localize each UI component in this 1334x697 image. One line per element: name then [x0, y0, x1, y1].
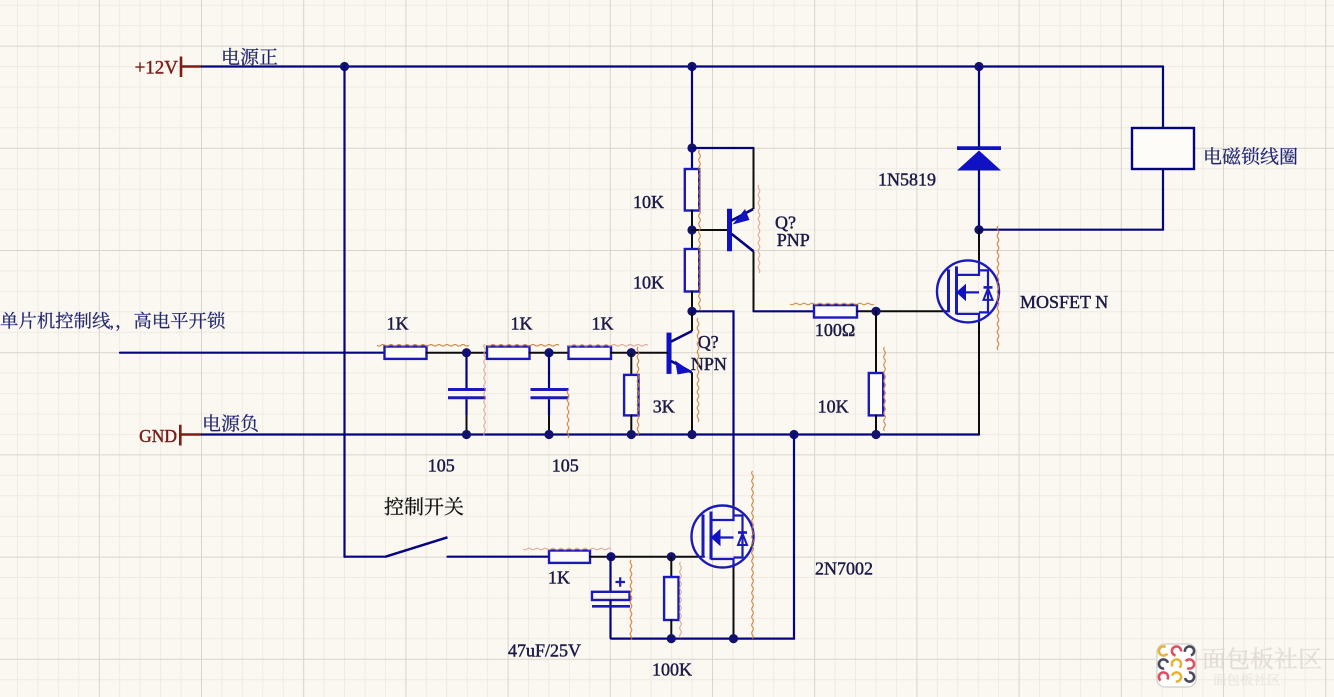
wire switch to R1K [448, 556, 550, 558]
svg-text:3K: 3K [653, 397, 675, 417]
junction R100K node [667, 552, 676, 561]
net label 电源正 [223, 48, 277, 65]
wire to MOSFET N drain [978, 230, 980, 260]
wire anode node to relay bottom [979, 169, 1163, 230]
pin wire 10K junction [691, 211, 693, 250]
junction PNP emitter node [687, 143, 696, 152]
svg-text:GND: GND [139, 426, 177, 446]
wire to switch [345, 556, 386, 558]
wire 12V to diode cathode [978, 67, 980, 149]
svg-text:Q?: Q? [698, 332, 719, 352]
junction top rail B [687, 62, 696, 71]
svg-text:10K: 10K [633, 273, 664, 293]
svg-text:NPN: NPN [691, 354, 727, 374]
capacitor 47uF/25V polarized [592, 557, 630, 639]
wire NPN collector node to 2N7002 drain [692, 311, 734, 505]
wire bottom rail [611, 435, 794, 639]
wire PNP base [692, 229, 727, 231]
wire PNP collector to R100 [754, 310, 815, 312]
junction top rail C [974, 62, 983, 71]
transistor Q? PNP [730, 148, 754, 311]
wire gate node to R10K [875, 311, 877, 373]
svg-text:2N7002: 2N7002 [815, 559, 873, 579]
pin wire 10K bottom [691, 292, 693, 312]
capacitor 105 second [531, 353, 569, 435]
watermark logo [1157, 644, 1196, 687]
net label 电源负 [204, 414, 257, 432]
svg-text:1K: 1K [511, 314, 533, 334]
svg-text:10K: 10K [818, 397, 849, 417]
wire R1K-1 to R1K-2 [427, 352, 488, 354]
resistor 1K third [569, 347, 612, 359]
wire +12V top rail [202, 65, 1163, 67]
wire R1K-3 to NPN base [611, 352, 667, 354]
svg-text:1K: 1K [592, 314, 614, 334]
junction gate node [871, 307, 880, 316]
svg-text:47uF/25V: 47uF/25V [508, 641, 581, 661]
svg-text:100Ω: 100Ω [815, 320, 855, 340]
watermark text 面包板社区 [1203, 647, 1321, 669]
resistor 100Ω [814, 305, 857, 317]
resistor 100K [664, 577, 678, 620]
wire GND rail [202, 433, 979, 435]
junction GND 5 [789, 430, 798, 439]
switch 控制开关 [386, 537, 448, 556]
junction NPN base node [627, 348, 636, 357]
net label 单片机控制线,，高电平开锁 [1, 312, 225, 331]
svg-text:1N5819: 1N5819 [878, 170, 936, 190]
wire 12V to R 10K top [691, 67, 693, 170]
power port +12V [181, 57, 202, 78]
svg-text:1K: 1K [548, 567, 570, 587]
junction bottom rail 1 [667, 634, 676, 643]
junction cap node [606, 552, 615, 561]
pin wire base to R3K [630, 353, 632, 375]
junction RC node 2 [544, 348, 553, 357]
junction bottom rail 2 [729, 634, 738, 643]
inductor/coil 电磁锁线圈 (relay box) [1132, 128, 1194, 169]
capacitor 105 first [448, 353, 486, 435]
junction RC node 1 [462, 348, 471, 357]
MOSFET 2N7002 [692, 505, 754, 568]
DRC marker zigzags [377, 345, 469, 347]
wire left vertical [343, 67, 345, 557]
pin wire 2N7002 drain [733, 505, 735, 520]
junction GND 3 [627, 430, 636, 439]
label 电磁锁线圈 [1205, 147, 1297, 165]
wire R100 to MOSFET gate [857, 310, 947, 312]
pin wire R100K to bottom rail [670, 620, 672, 639]
resistor 10K upper [685, 169, 699, 211]
junction diode anode node [974, 225, 983, 234]
transistor Q? NPN [669, 311, 692, 434]
wire diode anode down [978, 171, 980, 230]
power port GND [180, 425, 202, 446]
junction GND 1 [462, 430, 471, 439]
label 控制开关 [385, 497, 464, 515]
diode 1N5819 [957, 146, 1001, 170]
junction top rail A [340, 62, 349, 71]
svg-text:100K: 100K [652, 660, 692, 680]
svg-text:MOSFET N: MOSFET N [1020, 292, 1108, 312]
wire R1K-2 to R1K-3 [530, 352, 569, 354]
resistor 1K second [487, 347, 530, 359]
wire to PNP emitter [692, 147, 754, 149]
wire MOSFET N source to GND [978, 323, 980, 435]
junction GND 6 [871, 430, 880, 439]
pin wire R3K to GND [630, 415, 632, 434]
junction NPN collector node [687, 307, 696, 316]
resistor 10K gate pulldown [869, 373, 883, 415]
MOSFET N-channel power [937, 260, 999, 323]
pin wire to R100K [670, 557, 672, 577]
resistor 1K first [385, 347, 427, 359]
svg-text:+12V: +12V [135, 58, 179, 79]
wire R1K to 2N7002 gate [590, 556, 704, 558]
junction GND 4 [687, 430, 696, 439]
resistor 3K [624, 375, 638, 416]
svg-text:105: 105 [428, 456, 455, 476]
wire to relay top [1162, 67, 1164, 129]
svg-text:1K: 1K [387, 314, 409, 334]
svg-text:PNP: PNP [777, 230, 810, 250]
junction GND 2 [544, 430, 553, 439]
resistor 1K switch [549, 551, 590, 563]
watermark text small row [1214, 673, 1280, 685]
wire control line left [120, 352, 385, 354]
junction PNP base node [687, 225, 696, 234]
svg-text:10K: 10K [633, 192, 664, 212]
wire 2N7002 source to bottom rail [733, 568, 735, 639]
resistor 10K lower [685, 249, 699, 292]
svg-text:105: 105 [552, 456, 579, 476]
pin wire R10K to GND [875, 415, 877, 434]
